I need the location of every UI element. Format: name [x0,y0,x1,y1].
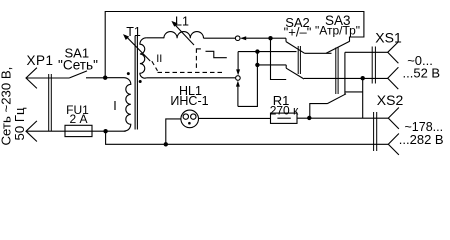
node junction loop/stub2 [255,63,259,67]
svg-text:2 А: 2 А [69,112,87,126]
mech link dashed vertical from L1 [195,48,197,70]
wire HL1 to R1 [199,117,271,119]
transformer T1 secondary winding II [140,38,147,78]
svg-text:ИНС-1: ИНС-1 [170,94,208,108]
wire L1 to wiper circle [204,37,236,39]
wire vertical XS1-lower node to XS2 upper [362,78,364,118]
svg-text:270 к: 270 к [270,104,299,118]
connector XP1 bars [49,74,52,131]
label white backing SA3 [314,13,363,37]
wire XS1-upper vertical to SA3 lower contact [344,52,346,94]
svg-text:T1: T1 [126,25,141,39]
wire SA2 upper throw to SA3 [305,52,332,54]
switch SA1 lever [70,71,88,78]
wire with down arrow into bottom wiper from polarity loop [237,52,239,70]
wire secondary top to L1 [146,37,164,39]
svg-text:...282 В: ...282 В [399,132,444,147]
wire stub to SA2 upper pole [271,37,287,39]
mech link dash corner [196,48,201,50]
connector XS2 bars [374,112,377,151]
variable arrow L1 [173,23,194,45]
svg-text:XS2: XS2 [377,92,404,108]
wire SA2 alternate throw stub [271,38,287,79]
svg-text:L1: L1 [175,15,189,29]
connector XS1 socket lower [388,67,399,89]
connector XP1 pin upper [26,68,37,89]
mech link bracket step [206,51,227,57]
wire R1 to XS2 upper [297,117,388,119]
mech link dashed horizontal [158,71,223,73]
wire top rail from SA1 junction up and across to SA3 "Атр" contact [105,12,364,78]
lamp HL1 branch [166,119,181,144]
node junction top wire [268,36,272,40]
transformer T1 core [135,36,137,130]
wire SA2 fixed stub 1 [238,51,296,53]
polarity dot primary [127,72,130,75]
svg-text:XS1: XS1 [375,30,402,46]
mech gang bar SA2 [298,46,300,74]
wire SA3 lower contact to XS2 upper node [345,91,363,93]
wire with up arrow into bottom wiper from below [237,87,239,107]
node junction FU1/primary bottom [103,129,107,133]
wire secondary bottom to lower wiper circle [146,77,235,79]
wire arrow to top wiper [242,37,271,39]
switch SA3 lever upper [326,41,350,53]
polarity dot secondary [139,80,142,83]
node junction R1 right [307,116,311,120]
svg-text:I: I [113,99,116,113]
wiper terminal circle bottom [236,76,241,81]
wire SA2 lower pole stub [257,64,286,66]
wire upper mains from XP1 to SA1 [26,77,70,79]
node junction XS1 lower [361,76,365,80]
connector XP1 pin lower [26,121,37,142]
switch SA2 lever 1 [286,38,305,53]
wire SA1 right stub to junction [86,77,105,79]
node junction HL1 bottom [164,142,168,146]
resistor R1 [271,113,298,123]
mech gang bar SA3 [336,48,338,95]
svg-text:"Сеть": "Сеть" [58,57,98,72]
wire XS1 upper feed [345,51,388,53]
switch SA3 lever lower [310,94,346,118]
variable arrow T1 [125,35,150,61]
connector XS2 socket upper [388,108,399,129]
svg-text:"Атр/Тр": "Атр/Тр" [315,23,360,37]
mech link dashed T1 [152,61,158,71]
svg-text:50 Гц: 50 Гц [12,107,27,140]
wire bottom rail [106,131,389,144]
wire polarity loop bottom [238,52,258,107]
transformer T1 primary winding I [105,78,131,132]
svg-text:"+/–": "+/–" [284,25,312,40]
inductor L1 [164,32,204,39]
node junction loop/stub1 [255,49,259,53]
wire SA2 lower throw to XS1 lower [304,77,388,79]
wire lower mains from XP1 through FU1 [26,130,126,132]
svg-text:XP1: XP1 [27,53,54,68]
connector XS2 socket lower [388,134,399,155]
switch SA2 lever 2 [286,65,304,79]
fuse FU1 [65,125,92,136]
wiper terminal circle top [235,36,240,41]
connector XS1 socket upper [388,42,399,63]
svg-text:II: II [156,53,162,65]
svg-text:...52 В: ...52 В [403,66,441,81]
connector XS1 bars [372,47,375,84]
lamp HL1 neon ИНС-1 [181,110,199,128]
node junction SA1 right [103,76,107,80]
